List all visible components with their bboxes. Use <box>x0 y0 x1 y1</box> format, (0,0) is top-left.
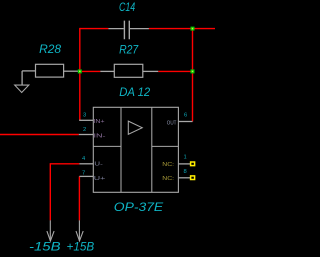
resistor R28 left lead <box>22 70 35 72</box>
svg-text:1: 1 <box>184 155 187 161</box>
power arrow head -15B <box>47 231 54 241</box>
svg-text:7: 7 <box>82 171 85 177</box>
capacitor C14 leads <box>108 28 148 30</box>
wire top horizontal right of C14 <box>149 28 215 30</box>
junction at R28/R27 node <box>78 69 82 73</box>
wire V- vertical down <box>49 163 51 220</box>
NC open square pin 1 <box>191 162 195 166</box>
op-amp inner vertical dividers <box>121 107 152 192</box>
wire right vertical from top to output <box>192 28 194 122</box>
svg-text:-15B: -15B <box>29 240 61 254</box>
resistor R28 right lead <box>64 70 79 72</box>
wire V- horizontal <box>50 163 79 165</box>
svg-text:C14: C14 <box>119 0 135 14</box>
resistor R27 body <box>114 64 143 77</box>
svg-text:NC:: NC: <box>162 176 174 182</box>
wire R27 row left segment <box>80 70 101 72</box>
svg-text:OUT: OUT <box>167 121 177 127</box>
wire R27 row right segment <box>158 70 192 72</box>
svg-text:OP-37E: OP-37E <box>114 200 165 214</box>
ground triangle <box>15 85 29 92</box>
junction right R27 <box>191 69 195 73</box>
svg-text:DA 12: DA 12 <box>119 85 150 99</box>
pin 6 output lead <box>178 121 192 123</box>
svg-text:+15B: +15B <box>67 240 95 254</box>
wire top horizontal left of C14 <box>80 28 109 30</box>
svg-text:R28: R28 <box>39 42 61 56</box>
pin 1 NC lead <box>178 163 190 165</box>
wire left vertical from top to pin3 <box>79 28 81 120</box>
svg-text:8: 8 <box>184 169 187 175</box>
NC open square pin 8 <box>191 176 195 180</box>
resistor R27 left lead <box>100 70 114 72</box>
power arrow stem -15B <box>49 220 51 241</box>
op-amp cell horizontal dividers <box>93 145 178 147</box>
capacitor C14 plates <box>124 21 129 40</box>
svg-text:U-: U- <box>94 162 103 168</box>
junction top right <box>191 27 195 31</box>
pin 7 lead (V+) <box>79 175 93 177</box>
power arrow stem +15B <box>78 220 80 241</box>
power arrow head +15B <box>76 231 83 241</box>
wire V+ vertical down <box>78 176 80 220</box>
svg-text:IN-: IN- <box>94 134 106 140</box>
resistor R27 right lead <box>143 70 158 72</box>
svg-text:2: 2 <box>83 127 86 133</box>
ground stub <box>21 71 23 85</box>
op-amp DA12 outer box <box>93 107 178 192</box>
svg-text:R27: R27 <box>119 42 139 56</box>
resistor R28 body <box>36 64 64 77</box>
pin 2 lead <box>79 134 94 136</box>
svg-text:IN+: IN+ <box>94 119 105 125</box>
svg-text:U+: U+ <box>94 176 106 182</box>
wire input to pin2 <box>0 134 79 136</box>
pin 3 lead <box>79 119 93 121</box>
svg-text:3: 3 <box>83 113 86 119</box>
op-amp triangle symbol <box>128 121 142 134</box>
pin 8 NC lead <box>178 177 190 179</box>
svg-text:6: 6 <box>184 112 187 118</box>
pin 4 lead (V-) <box>79 163 93 165</box>
svg-text:NC:: NC: <box>162 162 174 168</box>
